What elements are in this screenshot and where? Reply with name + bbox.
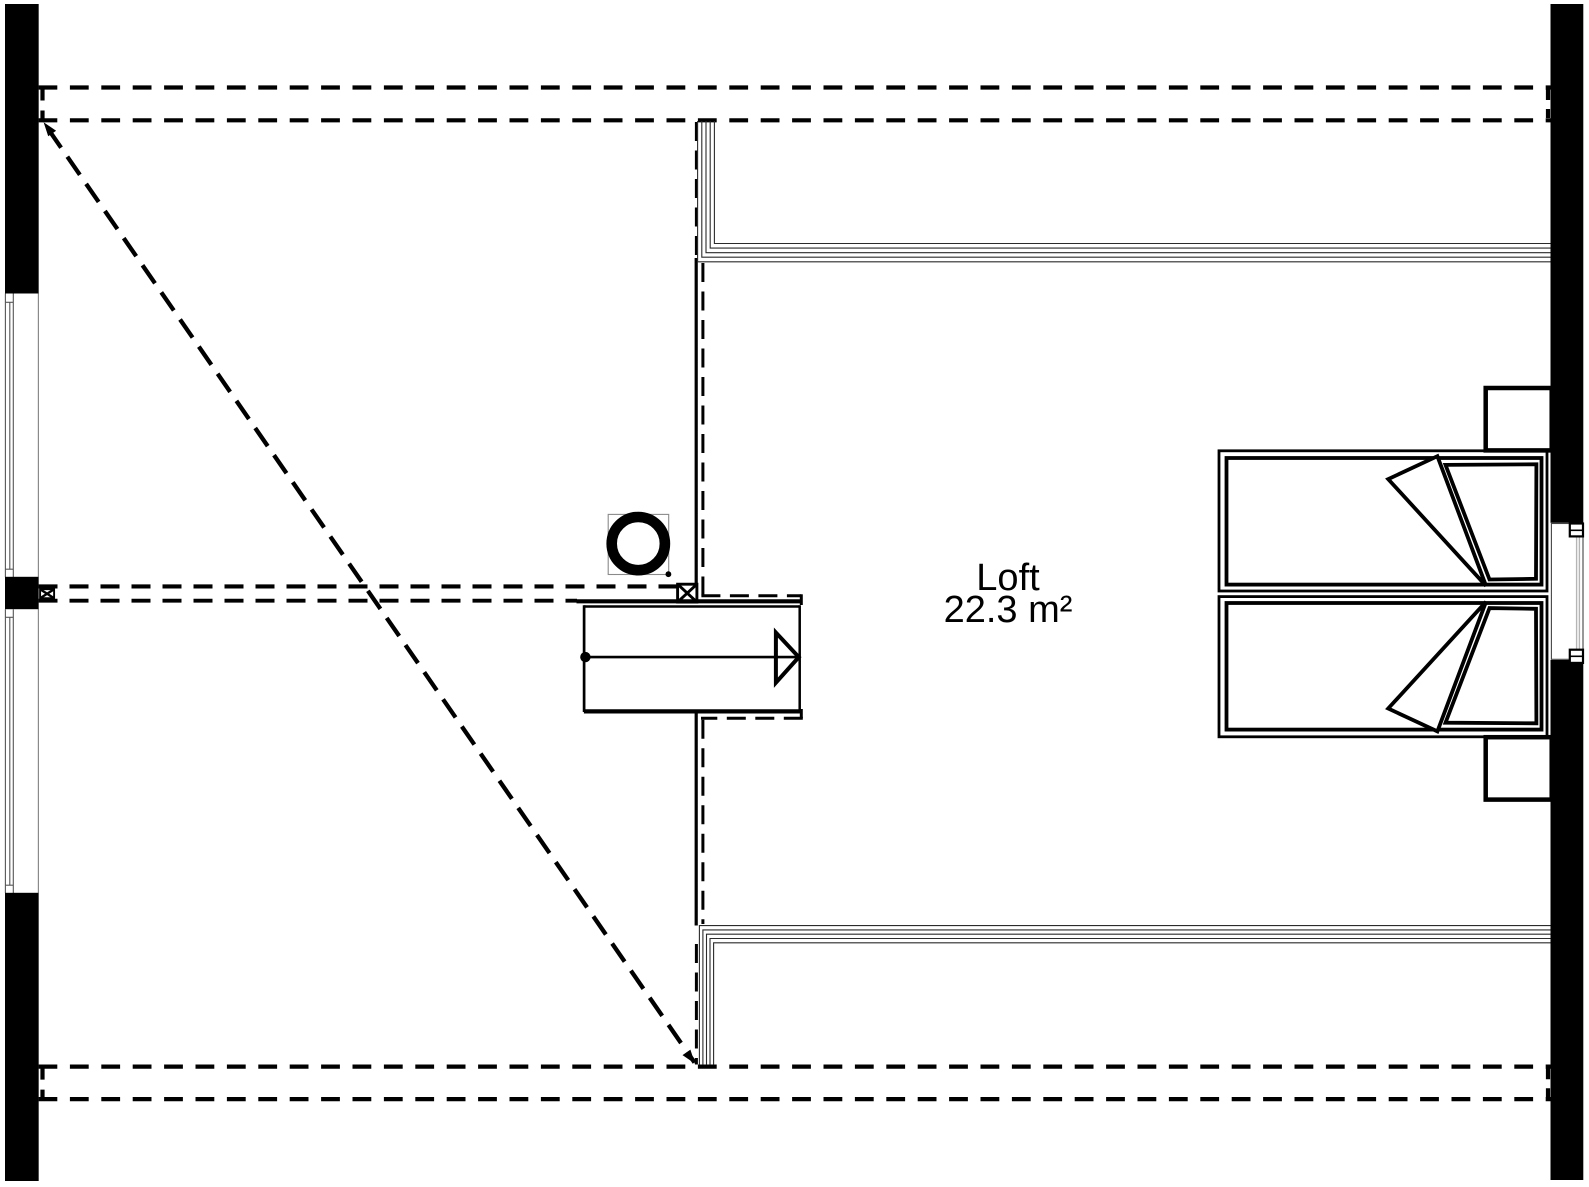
roof edge dashed line bottom 1 <box>39 1064 1551 1068</box>
staircase direction arrow line <box>584 656 798 659</box>
stairwell railing bottom <box>699 926 1550 1065</box>
diagonal roof slope dashed line <box>44 123 695 1063</box>
bed outer frame <box>1219 597 1547 737</box>
headroom dashed line vertical lower <box>701 720 704 924</box>
left wall middle segment <box>5 577 38 609</box>
partition wall solid lower <box>695 711 698 925</box>
roof edge dashed line bottom 2 <box>39 1097 1551 1101</box>
left wall lower segment <box>5 893 38 1181</box>
bed mattress <box>1227 458 1542 585</box>
partition wall dashed projection lower <box>695 944 698 1065</box>
roof edge bottom right end connector <box>1546 1068 1550 1097</box>
nightstand bottom <box>1486 737 1552 799</box>
bed blanket fold <box>1388 456 1486 586</box>
partition wall solid upper <box>695 258 698 584</box>
diagonal line top arrowhead <box>44 122 57 136</box>
left wall inner face line <box>37 4 39 1181</box>
roof edge top right end connector <box>1546 89 1550 118</box>
interior dashed level line lower <box>39 599 578 603</box>
right window top sash box <box>1570 524 1583 537</box>
bed outer frame <box>1219 451 1547 591</box>
chimney flue circle <box>612 517 665 570</box>
headroom dashed line horizontal lower <box>701 717 803 720</box>
staircase right edge <box>798 605 801 712</box>
chimney box <box>608 514 669 574</box>
right window frame <box>1551 524 1583 660</box>
left window lower frame <box>5 609 13 893</box>
diagonal line bottom arrowhead <box>683 1050 696 1064</box>
right wall upper segment <box>1551 4 1584 523</box>
stairwell railing top <box>698 121 1551 262</box>
left wall upper segment <box>5 4 38 294</box>
bed mattress <box>1227 603 1542 730</box>
svg-text:22.3 m²: 22.3 m² <box>944 589 1073 631</box>
bed blanket fold <box>1388 602 1486 732</box>
headroom dashed line vertical left <box>701 263 704 596</box>
right window glass line <box>1576 536 1578 649</box>
staircase left edge <box>583 605 586 712</box>
staircase top inner edge <box>584 605 800 608</box>
column marker left <box>40 589 54 598</box>
left window upper frame <box>5 294 13 578</box>
roof edge bottom left end connector <box>40 1067 44 1100</box>
chimney box corner dot <box>666 571 672 577</box>
roof edge dashed line top 2 <box>39 118 1551 122</box>
headroom dashed corner bottom right <box>800 709 803 718</box>
partition wall dashed projection upper <box>695 122 698 257</box>
right window bottom sash box <box>1570 650 1583 663</box>
staircase arrowhead <box>776 633 799 683</box>
roof edge top left end connector <box>40 88 44 121</box>
staircase arrow start dot <box>580 652 590 662</box>
bed pillow <box>1446 608 1537 723</box>
right wall lower segment <box>1551 660 1584 1180</box>
headroom dashed corner top right <box>800 594 803 605</box>
roof edge dashed line top 1 <box>39 85 1551 89</box>
column marker middle <box>678 584 697 602</box>
nightstand top <box>1486 388 1552 450</box>
headroom dashed line horizontal upper <box>701 594 801 597</box>
staircase bottom edge thick <box>584 709 802 713</box>
staircase top edge thick <box>577 599 802 603</box>
bed pillow <box>1446 464 1537 579</box>
interior dashed level line upper <box>39 584 678 588</box>
